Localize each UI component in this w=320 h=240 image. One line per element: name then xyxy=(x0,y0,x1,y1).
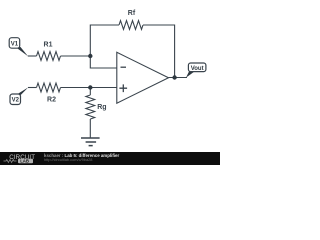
resistor Rf xyxy=(119,21,143,30)
svg-text:V1: V1 xyxy=(11,41,19,47)
svg-text:http://circuitlab.com/c/9ba28: http://circuitlab.com/c/9ba28 xyxy=(44,157,92,162)
svg-text:LAB: LAB xyxy=(20,159,29,164)
footer bar xyxy=(0,152,220,165)
wire xyxy=(28,87,37,89)
ground xyxy=(81,138,100,146)
svg-text:Rg: Rg xyxy=(97,104,106,111)
wire xyxy=(28,55,37,57)
wire xyxy=(61,55,91,57)
footer logo LAB xyxy=(18,159,33,164)
node B (non-inverting input junction) xyxy=(88,85,92,89)
svg-text:R1: R1 xyxy=(44,42,53,49)
wire xyxy=(90,25,119,56)
voltage source flag V1 xyxy=(9,38,28,57)
op-amp minus pin xyxy=(121,66,127,68)
svg-text:Vout: Vout xyxy=(191,66,204,72)
resistor R1 xyxy=(37,52,61,61)
resistor R2 xyxy=(37,83,61,92)
op-amp plus pin xyxy=(119,84,127,92)
voltage source flag V2 xyxy=(10,87,28,104)
wire xyxy=(90,56,117,68)
node A (inverting input junction) xyxy=(88,54,92,58)
footer logo resistor squiggle xyxy=(4,160,17,163)
svg-text:Rf: Rf xyxy=(128,10,136,17)
output flag Vout xyxy=(186,63,206,78)
wire xyxy=(169,77,188,79)
svg-text:R2: R2 xyxy=(47,97,56,104)
op-amp U1 xyxy=(117,52,169,103)
wire xyxy=(143,25,175,78)
node C (output junction) xyxy=(172,75,176,79)
svg-text:V2: V2 xyxy=(12,98,20,104)
resistor Rg xyxy=(86,88,95,139)
wire xyxy=(61,87,117,89)
